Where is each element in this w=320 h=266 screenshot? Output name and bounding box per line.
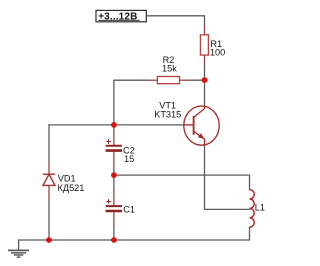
svg-text:100: 100: [210, 48, 225, 58]
svg-text:L1: L1: [255, 202, 265, 212]
svg-text:C1: C1: [123, 205, 135, 215]
svg-text:15: 15: [124, 154, 134, 164]
svg-text:KT315: KT315: [154, 109, 181, 119]
svg-text:15k: 15k: [162, 64, 177, 74]
svg-text:КД521: КД521: [58, 183, 85, 193]
